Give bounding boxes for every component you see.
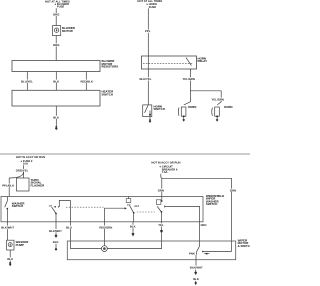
wire S4 contact to RED drop [166, 206, 199, 221]
label BLU [66, 225, 74, 229]
turn signal flasher [17, 178, 30, 191]
svg-text:PPL/BLK: PPL/BLK [2, 184, 14, 188]
label GRN left [157, 188, 164, 192]
label horn switch [154, 105, 165, 112]
svg-text:SWITCH: SWITCH [102, 92, 113, 96]
svg-text:GRN: GRN [158, 188, 164, 192]
label BLK washer ground [7, 257, 14, 261]
label windshield wiper washer switch [206, 194, 224, 206]
svg-text:10A: 10A [23, 163, 28, 166]
wire BLK washer pump ground [9, 250, 11, 262]
wire breaker down [161, 174, 163, 179]
svg-text:BLK/YEL: BLK/YEL [140, 77, 152, 81]
header HOT IN ACCY OR RUN (left) [16, 156, 45, 159]
svg-text:RESISTORS: RESISTORS [102, 65, 119, 69]
ground horn 2 [216, 117, 219, 122]
wire switch S2 pivot down [55, 214, 57, 222]
label YEL/GRN right [211, 98, 225, 102]
svg-text:BLU/YEL: BLU/YEL [21, 79, 33, 83]
wire BLK center [55, 72, 57, 91]
svg-text:RED/GRN: RED/GRN [99, 225, 112, 229]
ground horn switch [149, 117, 152, 123]
park contact arrow [204, 253, 210, 255]
washer switch S1 [5, 197, 8, 222]
washer pump [7, 240, 14, 250]
svg-text:BLK: BLK [53, 116, 59, 120]
wire BLK/WHT washer pump [7, 222, 9, 240]
svg-text:FLASHER: FLASHER [31, 183, 46, 187]
wire and ground dot S2 stub [55, 244, 57, 251]
wire ORG blower motor to resistors [55, 36, 57, 61]
svg-text:7.5A: 7.5A [162, 171, 168, 174]
svg-text:BLK: BLK [193, 277, 199, 281]
fuse 9 [21, 160, 33, 166]
ground wiper motor [194, 281, 197, 285]
wire PPL fuse to horn relay [147, 8, 149, 56]
label BLK [53, 79, 60, 83]
label ORG/YEL [15, 169, 28, 173]
svg-text:PUMP: PUMP [16, 243, 24, 247]
svg-text:HOT IN ACCY OR RUN: HOT IN ACCY OR RUN [151, 162, 180, 165]
wire BLK/WHT S2 stub [55, 222, 57, 234]
svg-text:RED/BLK: RED/BLK [81, 79, 93, 83]
svg-text:FUSE: FUSE [57, 6, 64, 9]
svg-text:YEL/GRN: YEL/GRN [212, 98, 224, 102]
label PNK [189, 252, 196, 256]
svg-text:YEL: YEL [158, 223, 164, 227]
label horn relay [198, 56, 208, 63]
wire BLK S3 stub with arrow [132, 222, 135, 237]
label YEL/GRN left [182, 77, 196, 81]
wire branch curve to washer switch [9, 172, 23, 197]
wire RED/BLK [85, 72, 87, 91]
heater switch box [12, 90, 100, 106]
label ORG 2 [53, 43, 61, 47]
wiper motor box [67, 241, 235, 260]
breaker header HOT IN ACCY OR RUN (right) [151, 162, 180, 165]
label YEL [158, 223, 165, 227]
svg-text:BLK: BLK [130, 225, 136, 229]
horn relay box [142, 56, 197, 69]
ground heater switch [55, 126, 58, 130]
divider line between diagrams [0, 153, 250, 155]
wire YEL/GRN relay to horns [184, 69, 191, 105]
label heater switch [102, 90, 115, 97]
svg-text:RELAY: RELAY [198, 59, 208, 63]
circuit breaker [159, 166, 177, 174]
svg-text:& SWITCH: & SWITCH [238, 244, 250, 248]
label BLK S2 stub [53, 240, 59, 244]
label PPL/BLK [2, 184, 14, 188]
wire BLU/YEL [26, 72, 28, 91]
connector arrow motor ground [194, 270, 197, 276]
svg-text:HORN: HORN [224, 105, 233, 109]
horn 2 [212, 107, 220, 117]
wiper switch S2 [49, 200, 71, 214]
svg-text:PPL: PPL [145, 29, 151, 33]
wire BLU inside box [70, 200, 72, 221]
label RED/BLK [80, 79, 94, 83]
windshield wiper washer switch box [1, 197, 203, 222]
svg-text:BLK: BLK [7, 257, 13, 261]
wiper switch S3 [126, 197, 140, 222]
label BLK/WHT washer [1, 226, 15, 230]
ground washer pump [9, 262, 12, 267]
wire GRN top run to right [162, 178, 232, 251]
wire GRN to wiper switch [161, 178, 163, 201]
wire BLK/WHT motor ground [195, 260, 197, 266]
blower fuse [55, 3, 70, 9]
horn switch box [143, 105, 152, 117]
label BLK/WHT S2 [49, 229, 63, 233]
label BLK motor ground [193, 277, 199, 281]
svg-text:OFF: OFF [134, 205, 139, 208]
svg-text:HORN: HORN [188, 105, 197, 109]
label BLU/YEL [21, 79, 35, 83]
svg-text:FUSE: FUSE [149, 6, 156, 9]
horn 1 [178, 107, 186, 117]
wire BLK to ground [55, 106, 57, 126]
wire ORG/YEL from fuse [23, 165, 25, 178]
label PPL [145, 29, 153, 33]
wire YEL to motor [107, 222, 163, 249]
label blower motor [62, 26, 76, 33]
label GRN right [229, 188, 236, 192]
svg-text:BLK/WHT: BLK/WHT [190, 266, 203, 270]
wire park contact to GRN [203, 251, 232, 253]
header HOT AT ALL TIMES (blower) [45, 0, 70, 3]
svg-text:ORG/YEL: ORG/YEL [16, 169, 29, 173]
svg-text:HOT IN ACCY OR RUN: HOT IN ACCY OR RUN [16, 156, 45, 159]
horn fuse [146, 3, 156, 9]
dashed link S3 to S4 [137, 211, 155, 213]
wire RED/GRN to motor [103, 222, 105, 246]
svg-text:BLK/WHT: BLK/WHT [1, 226, 14, 230]
svg-text:PNK: PNK [189, 252, 195, 256]
dashed link S2 to S3 [66, 206, 104, 208]
wire branch to horn 2 [190, 91, 221, 105]
wiper switch S4 [156, 200, 166, 222]
label BLK ground [53, 116, 60, 120]
wire BLU to motor [71, 222, 102, 249]
blower motor resistors box [12, 61, 100, 72]
svg-text:YEL/GRN: YEL/GRN [183, 77, 195, 81]
label BLK S3 [129, 225, 136, 229]
svg-text:MOTOR: MOTOR [62, 29, 74, 33]
svg-text:RED: RED [201, 223, 207, 227]
label washer pump [16, 240, 30, 247]
wire BLK/YEL relay to horn switch [147, 56, 149, 105]
park switch [195, 246, 204, 260]
label BLK/YEL [139, 77, 153, 81]
svg-text:BLK/WHT: BLK/WHT [49, 229, 62, 233]
label RED/GRN [99, 225, 113, 229]
wire RED to park switch [199, 222, 201, 246]
label BLK/WHT motor [189, 266, 203, 270]
svg-text:SWITCH: SWITCH [154, 107, 165, 111]
connector arrow S2 stub [55, 234, 58, 238]
svg-text:SWITCH: SWITCH [12, 204, 23, 208]
label RED [201, 223, 207, 227]
svg-text:GRN: GRN [230, 188, 236, 192]
label ORG [53, 13, 61, 17]
header HOT AT ALL TIMES (horn) [137, 0, 162, 3]
label wiper motor and switch [238, 238, 252, 247]
svg-text:BLU: BLU [66, 225, 72, 229]
blower motor M1 [53, 26, 61, 36]
wiper motor M2 [102, 246, 108, 252]
svg-text:ORG: ORG [53, 43, 59, 47]
svg-text:SWITCH: SWITCH [206, 202, 217, 206]
label turn signal flasher [31, 178, 46, 187]
svg-text:ORG: ORG [53, 13, 59, 17]
label blower motor resistors [102, 59, 119, 68]
label washer switch [12, 201, 26, 208]
label horn 1 [188, 105, 197, 109]
svg-text:BLK: BLK [53, 240, 59, 244]
wire ORG fuse to blower motor [55, 8, 57, 25]
label horn 2 [224, 105, 233, 109]
wire contact feed to S3 [104, 207, 126, 222]
svg-text:BLK: BLK [53, 79, 59, 83]
ground horn 1 [182, 117, 185, 122]
